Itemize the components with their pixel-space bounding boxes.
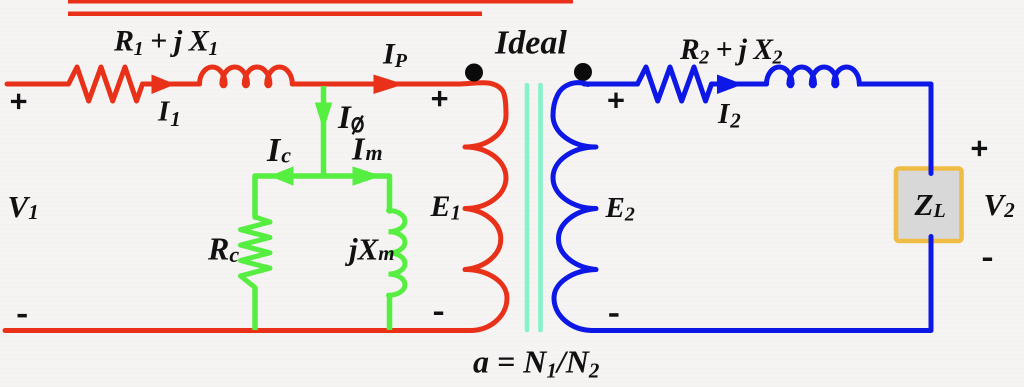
transformer core line left <box>525 85 530 330</box>
wire: secondary bottom rail <box>592 328 931 333</box>
minus sign V1 <box>18 314 27 318</box>
svg-text:R1 + j X1: R1 + j X1 <box>113 25 218 61</box>
arrowhead I2 <box>717 75 743 95</box>
minus sign V2 <box>983 258 992 262</box>
svg-text:Ic: Ic <box>266 132 291 169</box>
polarity dot primary <box>465 64 483 82</box>
svg-text:Im: Im <box>351 131 383 167</box>
title underline lower red rule <box>68 12 482 17</box>
arrowhead Im <box>353 166 382 185</box>
load box ZL <box>896 169 962 242</box>
resistor R2 <box>638 67 712 101</box>
plus sign E1 <box>432 91 447 106</box>
wire: E2 top to R2 <box>584 82 638 87</box>
transformer core line right <box>538 85 543 330</box>
svg-text:I: I <box>337 100 352 136</box>
inductor X2 coil bumps <box>767 67 860 86</box>
wire: load top lead end cap over border <box>929 160 934 174</box>
wire: V1 positive terminal lead to R1 <box>7 82 69 87</box>
wire: green shunt vertical from node <box>321 86 327 176</box>
title underline upper red rule <box>68 0 573 4</box>
arrowhead I1 <box>152 75 176 95</box>
plus sign E2 <box>608 93 623 108</box>
inductor Xm coil bumps <box>389 211 406 296</box>
svg-text:I1: I1 <box>157 96 181 132</box>
svg-text:R2 + j X2: R2 + j X2 <box>679 34 783 69</box>
resistor R1 <box>69 67 143 101</box>
svg-text:E2: E2 <box>605 192 635 226</box>
minus sign E2 <box>609 313 618 317</box>
wire: primary bottom rail <box>5 328 470 333</box>
arrowhead Iphi <box>315 103 332 131</box>
arrowhead Ic <box>270 166 294 185</box>
inductor X1 coil bumps <box>200 67 293 86</box>
wire: R1 to X1 <box>143 82 200 87</box>
svg-text:V1: V1 <box>8 189 39 224</box>
plus sign V2 <box>972 141 987 156</box>
winding E2 secondary coil <box>553 83 596 331</box>
minus sign E1 <box>434 312 443 316</box>
polarity dot secondary <box>574 63 592 81</box>
wire: secondary right side down to load <box>857 84 931 330</box>
svg-text:a = N1/N2: a = N1/N2 <box>473 344 600 383</box>
resistor Rc zigzag <box>241 217 271 288</box>
wire: load bottom lead end cap over border <box>929 237 934 251</box>
svg-text:I2: I2 <box>717 98 741 133</box>
svg-text:Rc: Rc <box>207 231 239 268</box>
winding E1 primary coil <box>460 83 507 331</box>
wire: X1 to winding E1 through node <box>292 82 460 87</box>
wire: green horizontal bar of shunt branch <box>255 176 390 217</box>
svg-text:IP: IP <box>382 38 408 73</box>
wire: Xm lower lead to bottom rail <box>387 295 393 330</box>
svg-text:V2: V2 <box>984 187 1016 222</box>
plus sign V1 <box>11 94 26 109</box>
svg-text:Ideal: Ideal <box>494 25 567 62</box>
label phi glyph of Iphi <box>353 116 363 135</box>
svg-text:E1: E1 <box>430 190 462 225</box>
arrowhead IP <box>374 75 405 95</box>
wire: R2 to X2 <box>712 82 767 87</box>
wire: Rc lower lead to bottom rail <box>252 288 258 331</box>
svg-text:jXm: jXm <box>344 232 395 267</box>
